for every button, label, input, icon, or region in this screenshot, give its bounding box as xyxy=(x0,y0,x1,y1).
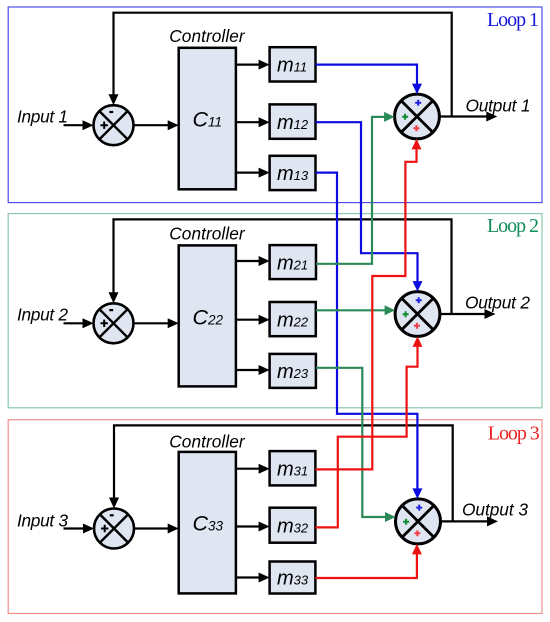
wire m12 to S2out (blue) xyxy=(316,122,418,283)
svg-text:Input 2: Input 2 xyxy=(17,305,68,325)
input summer S2in xyxy=(94,303,134,343)
loop 1 boundary box xyxy=(8,7,542,203)
svg-text:Controller: Controller xyxy=(169,26,246,46)
svg-text:Controller: Controller xyxy=(169,224,246,244)
wire: C22 to m23 xyxy=(236,369,261,371)
block m31 xyxy=(270,451,316,485)
loop 2 boundary box xyxy=(8,214,542,408)
block m32 xyxy=(270,508,316,543)
wire: summer S3 to controller C33 xyxy=(134,527,170,529)
wire: feedback loop 2 xyxy=(114,219,452,314)
wire: summer S2 to controller C22 xyxy=(134,322,171,324)
block m22 xyxy=(270,302,316,336)
wire: output 1 line xyxy=(439,115,489,117)
wire m23 to S3out (green) xyxy=(316,368,387,517)
loop 3 boundary box xyxy=(8,420,542,614)
block m11 xyxy=(270,47,316,81)
block m21 xyxy=(270,245,316,279)
input summer S3in xyxy=(94,509,134,549)
wire m21 to S1out (green) xyxy=(316,117,386,264)
wire m32 to S2out (red) xyxy=(315,345,417,527)
block m33 xyxy=(270,562,316,594)
svg-text:Controller: Controller xyxy=(169,432,246,452)
svg-text:Loop 1: Loop 1 xyxy=(487,9,539,31)
block m13 xyxy=(270,156,316,190)
wire: C22 to m22 xyxy=(236,319,261,321)
wire: feedback loop 1 xyxy=(114,13,452,117)
controller C22 xyxy=(179,245,236,386)
wire m13 to S3out (blue) xyxy=(316,173,418,491)
wire: output 3 line xyxy=(441,520,489,522)
svg-text:Output 3: Output 3 xyxy=(462,499,528,519)
svg-text:Output 2: Output 2 xyxy=(465,293,530,313)
wire: C11 to m11 xyxy=(236,63,261,65)
wire: C33 to m33 xyxy=(236,576,261,578)
controller C11 xyxy=(179,48,236,190)
block m12 xyxy=(270,104,316,138)
wire m11 to S1out (blue) xyxy=(316,65,418,86)
wire: input 3 arrow into summer S3 xyxy=(64,527,86,529)
block m23 xyxy=(270,354,316,388)
wire: output 2 line xyxy=(440,313,487,315)
svg-text:Input 1: Input 1 xyxy=(17,106,68,126)
output summer S2out xyxy=(395,292,440,337)
wire: C11 to m12 xyxy=(236,121,261,123)
wire m33 to S3out (red) xyxy=(315,553,417,579)
svg-text:Loop 3: Loop 3 xyxy=(488,423,540,445)
wire: input 1 arrow into summer S1 xyxy=(64,124,86,126)
svg-text:Loop 2: Loop 2 xyxy=(487,215,539,237)
wire m31 to S1out (red) xyxy=(315,148,416,470)
wire m22 to S2out (green) xyxy=(316,309,387,311)
output summer S1out xyxy=(395,94,440,139)
wire: feedback loop 3 xyxy=(114,425,453,521)
controller C33 xyxy=(179,452,236,594)
svg-text:Input 3: Input 3 xyxy=(17,511,68,531)
output summer S3out xyxy=(396,499,441,544)
svg-text:Output 1: Output 1 xyxy=(466,96,531,116)
input summer S1in xyxy=(94,105,134,145)
wire: C22 to m21 xyxy=(236,260,261,262)
wire: C11 to m13 xyxy=(236,172,261,174)
wire: summer S1 to controller C11 xyxy=(134,124,171,126)
wire: C33 to m31 xyxy=(236,468,261,470)
wire: C33 to m32 xyxy=(236,525,261,527)
wire: input 2 arrow into summer S2 xyxy=(64,322,86,324)
